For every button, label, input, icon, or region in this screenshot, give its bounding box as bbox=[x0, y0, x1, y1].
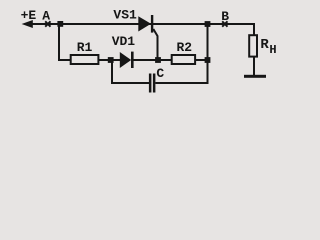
node B junction dot (top) bbox=[205, 21, 211, 27]
wire: right corner down into RH bbox=[253, 23, 255, 36]
svg-text:VS1: VS1 bbox=[113, 8, 137, 23]
wire: right vertical (top rail to bottom rail) bbox=[207, 24, 209, 84]
wire: node A drop to middle row bbox=[59, 24, 70, 60]
svg-text:R1: R1 bbox=[77, 40, 93, 55]
node B terminal X mark bbox=[222, 21, 227, 26]
node A junction dot bbox=[57, 21, 63, 27]
svg-text:R: R bbox=[260, 37, 269, 53]
svg-text:A: A bbox=[42, 8, 50, 23]
wire: R1 to VD1 junction bbox=[99, 59, 120, 61]
capacitor C plates bbox=[149, 74, 152, 93]
svg-text:VD1: VD1 bbox=[112, 34, 136, 49]
svg-text:H: H bbox=[269, 43, 276, 57]
wire: +E top rail bbox=[30, 23, 255, 25]
svg-text:+E: +E bbox=[21, 8, 37, 23]
resistor R1 bbox=[71, 55, 99, 64]
junction R2 right bbox=[205, 57, 211, 63]
svg-text:C: C bbox=[156, 66, 164, 81]
resistor R2 bbox=[172, 55, 195, 64]
resistor RH (load) bbox=[249, 35, 257, 56]
wire: capacitor to right vertical (bottom rail) bbox=[155, 82, 208, 84]
wire: junction drop to bottom rail and to capacitor bbox=[112, 61, 149, 83]
wire: R2 to right vertical bbox=[196, 59, 208, 61]
thyristor VS1 bbox=[138, 15, 157, 59]
junction VD1/R2 (gate node) bbox=[155, 57, 161, 63]
svg-text:R2: R2 bbox=[177, 40, 193, 55]
wire: RH bottom lead bbox=[253, 57, 255, 76]
ground bbox=[244, 75, 266, 78]
wire: VD1 to R2 bbox=[134, 59, 173, 61]
junction R1/VD1 bbox=[108, 57, 114, 63]
arrow +E supply (points left) bbox=[22, 20, 33, 28]
diode VD1 bbox=[120, 52, 134, 68]
node A terminal X mark bbox=[45, 21, 50, 26]
